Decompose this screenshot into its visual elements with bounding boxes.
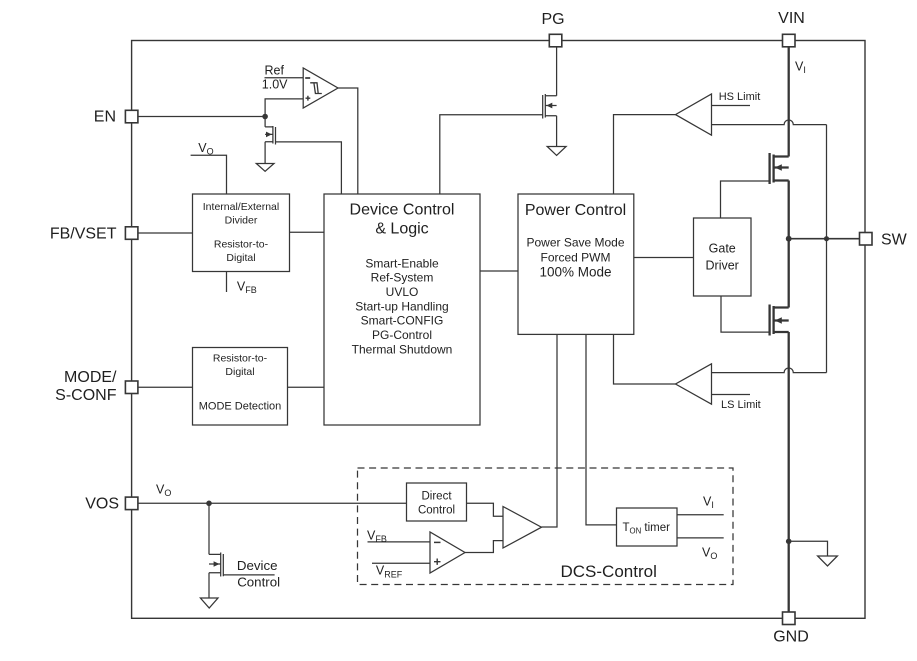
wire LS comparator output to Power Control bbox=[614, 334, 676, 384]
svg-text:VFB: VFB bbox=[367, 529, 387, 545]
wire Q2 source to ground bbox=[556, 116, 558, 147]
svg-text:UVLO: UVLO bbox=[386, 285, 419, 299]
pin SW bbox=[860, 233, 873, 246]
svg-text:Digital: Digital bbox=[226, 252, 255, 264]
block TON timer bbox=[617, 508, 678, 546]
wire node A to comparator plus input bbox=[265, 99, 303, 117]
svg-text:Resistor-to-: Resistor-to- bbox=[213, 353, 268, 365]
svg-text:Gate: Gate bbox=[709, 242, 736, 256]
wire Q5 source to ground bbox=[208, 573, 210, 598]
wire FB/VSET pin to divider bbox=[138, 232, 193, 234]
svg-text:MODE/: MODE/ bbox=[64, 369, 117, 386]
pin VIN bbox=[783, 34, 796, 47]
block Direct Control bbox=[407, 483, 467, 521]
wire Direct Control to driver input bbox=[467, 503, 504, 516]
transistor Q1 EN pulldown bbox=[265, 117, 275, 164]
svg-text:S-CONF: S-CONF bbox=[55, 387, 117, 404]
svg-text:Smart-Enable: Smart-Enable bbox=[365, 256, 439, 270]
svg-text:Resistor-to-: Resistor-to- bbox=[214, 238, 269, 250]
svg-text:& Logic: & Logic bbox=[375, 221, 428, 238]
svg-text:VFB: VFB bbox=[237, 280, 257, 296]
wire EN pin to node A bbox=[138, 116, 265, 118]
transistor Q5 VOS device control FET bbox=[209, 553, 223, 577]
svg-text:VI: VI bbox=[703, 494, 714, 510]
wire SW sense vertical bbox=[826, 125, 828, 373]
svg-text:FB/VSET: FB/VSET bbox=[50, 225, 117, 242]
svg-text:Power Save Mode: Power Save Mode bbox=[526, 235, 624, 249]
svg-text:LS Limit: LS Limit bbox=[721, 399, 761, 411]
svg-text:Device Control: Device Control bbox=[350, 202, 455, 219]
transistor Q4 low side FET bbox=[770, 305, 789, 336]
op-amp U1 EN comparator bbox=[303, 68, 338, 108]
wire TON timer VO output bbox=[677, 537, 724, 539]
svg-text:Control: Control bbox=[418, 504, 455, 516]
pin MODE/S-CONF bbox=[125, 381, 137, 394]
ground below Q5 bbox=[200, 598, 218, 608]
svg-text:MODE Detection: MODE Detection bbox=[199, 401, 282, 413]
ground below Q2 bbox=[547, 147, 566, 156]
label plus U1 bbox=[306, 96, 311, 101]
label plus U2 bbox=[434, 559, 441, 565]
label minus U2 bbox=[434, 541, 441, 543]
wire LS gate from Gate Driver bbox=[721, 296, 770, 332]
pin FB/VSET bbox=[125, 227, 137, 240]
wire VFB input to comparator U2 bbox=[368, 541, 431, 543]
svg-text:VO: VO bbox=[702, 546, 717, 562]
wire VFB stub divider bottom bbox=[226, 272, 228, 293]
svg-text:DCS-Control: DCS-Control bbox=[561, 562, 657, 581]
wire HS comparator input from SW sense with crossover bbox=[712, 120, 827, 125]
block Power Control bbox=[518, 194, 634, 334]
pin GND bbox=[783, 612, 796, 625]
svg-text:HS Limit: HS Limit bbox=[719, 91, 761, 103]
transistor Q2 PG open drain bbox=[543, 94, 557, 119]
pin PG bbox=[549, 34, 562, 47]
block DCS-Control dashed bbox=[358, 468, 734, 585]
wire driver output to Power Control bbox=[542, 334, 558, 527]
block divider Internal/External bbox=[193, 194, 290, 272]
label minus U1 bbox=[305, 77, 310, 79]
svg-text:Ref: Ref bbox=[265, 63, 285, 77]
svg-text:VIN: VIN bbox=[778, 10, 805, 27]
ground at GND rail branch bbox=[818, 556, 838, 566]
svg-text:VO: VO bbox=[156, 482, 171, 498]
svg-text:GND: GND bbox=[773, 628, 809, 645]
op-amp LS Limit comparator bbox=[676, 364, 712, 404]
wire TON timer VI output bbox=[677, 514, 724, 516]
node A junction dot EN bbox=[262, 114, 268, 120]
wire Power Control to TON timer bbox=[586, 334, 617, 525]
wire divider to Device Control bbox=[290, 231, 325, 233]
svg-text:VO: VO bbox=[198, 141, 213, 157]
wire Q2 gate to Device Control bbox=[440, 115, 543, 194]
svg-text:Device: Device bbox=[237, 558, 278, 573]
wire HS source to LS drain through SW node bbox=[788, 181, 790, 308]
wire LS comparator input from SW sense with crossover bbox=[712, 368, 827, 373]
svg-text:Ref-System: Ref-System bbox=[371, 271, 434, 285]
wire GND branch to ground bbox=[789, 541, 828, 556]
op-amp U2 DCS comparator bbox=[430, 532, 465, 573]
svg-text:Start-up Handling: Start-up Handling bbox=[355, 300, 448, 314]
op-amp HS Limit comparator bbox=[676, 94, 712, 135]
svg-text:Divider: Divider bbox=[225, 214, 258, 226]
wire Ref to comparator minus input bbox=[265, 77, 304, 79]
wire HS Limit stub bbox=[712, 105, 751, 107]
node SW junction dot sense bbox=[824, 236, 829, 241]
node B junction dot VOS bbox=[206, 501, 212, 507]
block Device Control and Logic bbox=[324, 194, 480, 425]
wire VIN to HS drain bbox=[788, 47, 790, 157]
svg-text:VOS: VOS bbox=[85, 496, 119, 513]
wire LS source to GND pin bbox=[788, 332, 790, 612]
wire Q5 gate lead bbox=[223, 574, 274, 576]
svg-text:Driver: Driver bbox=[706, 259, 739, 273]
svg-text:Power Control: Power Control bbox=[525, 202, 626, 219]
wire mode box to Device Control bbox=[288, 386, 325, 388]
wire HS comparator output to Power Control bbox=[614, 115, 676, 194]
wire PG pin to Q2 drain bbox=[556, 47, 558, 96]
wire VREF input to comparator U2 bbox=[372, 562, 430, 564]
wire Power Control to Gate Driver bbox=[634, 257, 694, 259]
svg-text:Direct: Direct bbox=[421, 490, 452, 502]
amplifier driver triangle bbox=[503, 507, 542, 549]
transistor Q3 high side FET bbox=[770, 153, 789, 184]
svg-text:Smart-CONFIG: Smart-CONFIG bbox=[361, 314, 444, 328]
svg-text:EN: EN bbox=[94, 109, 116, 126]
pin VOS bbox=[125, 497, 137, 510]
wire node B to Q5 drain bbox=[208, 503, 210, 554]
wire MODE pin to mode box bbox=[138, 386, 193, 388]
svg-text:PG-Control: PG-Control bbox=[372, 328, 432, 342]
hysteresis symbol U1 bbox=[310, 83, 322, 94]
svg-text:VREF: VREF bbox=[376, 564, 403, 580]
svg-text:Thermal Shutdown: Thermal Shutdown bbox=[352, 342, 453, 356]
wire VOS pin to Direct Control bbox=[138, 502, 407, 504]
wire Q1 gate to Device Control bbox=[276, 142, 342, 194]
svg-text:Digital: Digital bbox=[225, 366, 254, 378]
wire SW node to SW pin bbox=[789, 238, 860, 240]
svg-text:VI: VI bbox=[795, 60, 806, 76]
ground below Q1 bbox=[256, 164, 274, 172]
pin EN bbox=[125, 110, 137, 123]
node SW junction dot main bbox=[786, 236, 792, 242]
block Gate Driver bbox=[694, 218, 752, 296]
svg-text:1.0V: 1.0V bbox=[262, 78, 288, 92]
svg-text:SW: SW bbox=[881, 231, 908, 248]
wire comparator U2 output to driver input bbox=[465, 541, 503, 553]
block Resistor-to-Digital MODE bbox=[193, 348, 288, 426]
node GND junction dot bbox=[786, 539, 792, 545]
wire HS gate from Gate Driver bbox=[721, 181, 770, 218]
svg-text:100% Mode: 100% Mode bbox=[539, 265, 611, 280]
IC boundary bbox=[132, 41, 865, 619]
svg-text:Forced PWM: Forced PWM bbox=[540, 250, 610, 264]
wire LS Limit stub bbox=[712, 394, 751, 396]
wire comparator U1 output to Device Control bbox=[338, 88, 358, 194]
svg-text:PG: PG bbox=[541, 11, 564, 28]
wire VO to divider top bbox=[191, 155, 227, 194]
svg-text:Control: Control bbox=[237, 575, 280, 590]
svg-text:Internal/External: Internal/External bbox=[203, 201, 279, 213]
wire Device Control to Power Control bbox=[480, 270, 518, 272]
